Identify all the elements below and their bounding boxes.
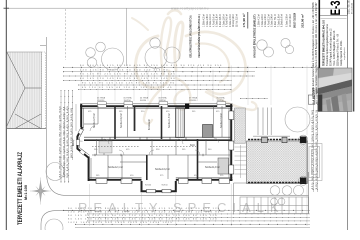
title block strip bbox=[312, 0, 353, 95]
svg-text:Közl.: Közl. bbox=[190, 145, 195, 147]
right dimension chains bbox=[314, 104, 318, 192]
svg-text:90 350 120 415 90 520 415 90 3: 90 350 120 415 90 520 415 90 350 120 415… bbox=[68, 208, 221, 210]
svg-text:NYUGATI ÉPÜLETRÉSZ (EMELET): NYUGATI ÉPÜLETRÉSZ (EMELET) bbox=[252, 14, 257, 57]
svg-text:8. Fürdő 4,60 m²: 8. Fürdő 4,60 m² bbox=[226, 14, 229, 27]
right dim micro text bbox=[312, 108, 318, 190]
svg-text:2021. 05. 28.: 2021. 05. 28. bbox=[348, 0, 351, 14]
svg-text:90/150: 90/150 bbox=[140, 100, 147, 102]
svg-text:Szoba 14,2 m²: Szoba 14,2 m² bbox=[120, 113, 123, 128]
svg-text:Szoba 12,1 m²: Szoba 12,1 m² bbox=[108, 166, 123, 169]
svg-text:10. Erkély 6,20 m²: 10. Erkély 6,20 m² bbox=[232, 14, 235, 27]
svg-text:5. Szoba 12,40 m²: 5. Szoba 12,40 m² bbox=[271, 14, 274, 27]
watermark logo ornate monogram bbox=[132, 10, 257, 123]
heavy divider bbox=[318, 0, 320, 68]
plot line center vertical bbox=[126, 8, 128, 66]
plot boundary vertical line bbox=[46, 37, 48, 172]
svg-text:Hrsz.: 1234/5 Megbízó: Minta K: Hrsz.: 1234/5 Megbízó: Minta Kft. bbox=[333, 30, 336, 66]
misc small marks top-left corner tick bbox=[4, 7, 10, 9]
eave strip bottom post bbox=[240, 132, 246, 139]
svg-text:90 145 90 145 120 145 90 145 9: 90 145 90 145 120 145 90 145 90 145 90 bbox=[82, 83, 175, 85]
patio right boundary bbox=[308, 172, 310, 214]
svg-text:120 415 90 520 415 90 350 120: 120 415 90 520 415 90 350 120 415 90 bbox=[80, 69, 169, 71]
bathroom dark block bbox=[203, 125, 213, 138]
svg-text:E-3: E-3 bbox=[328, 0, 343, 15]
top dimension chains bbox=[63, 65, 319, 99]
area table B rows bbox=[258, 14, 284, 27]
svg-text:1. Előtér 4,25 m²: 1. Előtér 4,25 m² bbox=[203, 14, 206, 27]
svg-text:1025 1430 1025 655 1430 1025 6: 1025 1430 1025 655 1430 1025 655 1430 10… bbox=[68, 222, 173, 224]
svg-text:KELETI ÉPÜLETRÉSZ (POLGÁRDI UT: KELETI ÉPÜLETRÉSZ (POLGÁRDI UTCA 12.) bbox=[196, 14, 201, 57]
bottom wall right part bbox=[176, 179, 233, 181]
svg-text:3. Szoba 14,21 m²: 3. Szoba 14,21 m² bbox=[209, 14, 212, 27]
page border right outer bbox=[353, 0, 355, 112]
svg-text:2. Szoba 13,25 m²: 2. Szoba 13,25 m² bbox=[261, 14, 264, 27]
wall opening ticks bbox=[95, 138, 203, 157]
svg-text:10. Fürdő 4,82 m²: 10. Fürdő 4,82 m² bbox=[289, 14, 292, 27]
left wall upper bbox=[80, 104, 82, 128]
svg-text:9. Szoba 12,20 m²: 9. Szoba 12,20 m² bbox=[286, 14, 289, 27]
terrace corner post SE bbox=[300, 178, 307, 185]
svg-text:Közlekedő: Közlekedő bbox=[149, 119, 151, 130]
svg-text:Erkély: Erkély bbox=[72, 139, 75, 146]
svg-text:4. Fürdő 5,40 m²: 4. Fürdő 5,40 m² bbox=[212, 14, 215, 27]
svg-text:90 145 90 210 145 90 145 120 1: 90 145 90 210 145 90 145 120 145 90 145 … bbox=[68, 215, 218, 217]
roof ridge lines bbox=[7, 52, 25, 126]
north star compass bbox=[32, 180, 50, 203]
patio furniture circles bbox=[270, 186, 303, 205]
svg-text:415 90 350 120 415 90 350 120: 415 90 350 120 415 90 350 120 415 bbox=[60, 104, 62, 178]
windows right wall bbox=[229, 111, 234, 174]
terrace bottom edge bbox=[248, 182, 307, 184]
room labels bbox=[72, 113, 270, 171]
steps between building and terrace bbox=[235, 145, 248, 178]
svg-text:9. Szoba 12,15 m²: 9. Szoba 12,15 m² bbox=[229, 14, 232, 27]
page border right inner bbox=[346, 0, 348, 230]
boundary rounded corner upper bbox=[47, 172, 309, 195]
bottom wall left part bbox=[89, 179, 142, 181]
svg-text:Szoba 12,5 m²: Szoba 12,5 m² bbox=[93, 113, 96, 128]
interior micro dimension text bbox=[88, 111, 224, 177]
svg-text:Realty Special Kft. 2021.: Realty Special Kft. 2021. bbox=[340, 40, 343, 66]
windows top bbox=[98, 102, 226, 107]
svg-text:Társasház építési engedélyezés: Társasház építési engedélyezési terve bbox=[326, 23, 329, 66]
svg-text:6. Közl. 7,81 m²: 6. Közl. 7,81 m² bbox=[274, 14, 277, 27]
svg-text:90 145 90 210 145 90 145 120 1: 90 145 90 210 145 90 145 120 145 bbox=[67, 104, 69, 178]
svg-text:Szoba 11,8 m²: Szoba 11,8 m² bbox=[168, 113, 171, 128]
dashed plot line top bbox=[65, 9, 67, 60]
svg-text:45 120 45 145 45 120 45 145 45: 45 120 45 145 45 120 45 145 45 120 45 bbox=[82, 87, 173, 89]
svg-text:7. Szoba 13,42 m²: 7. Szoba 13,42 m² bbox=[222, 14, 225, 27]
svg-text:4. Fürdő 5,12 m²: 4. Fürdő 5,12 m² bbox=[267, 14, 270, 27]
tiled room block bbox=[218, 158, 229, 174]
bay window left bbox=[77, 127, 88, 158]
chimney bbox=[185, 103, 189, 108]
svg-text:www.realtyspecial.hu: www.realtyspecial.hu bbox=[171, 7, 209, 11]
left dimension chains bbox=[61, 90, 76, 183]
terrace corner post NE bbox=[300, 137, 307, 144]
svg-text:60 145 120 145 90 145 60 145 1: 60 145 120 145 90 145 60 145 120 145 60 bbox=[80, 78, 176, 80]
door swing arcs bbox=[90, 126, 219, 155]
railing lines bbox=[253, 108, 290, 137]
svg-text:90 350 120 415 90 520 415 90 3: 90 350 120 415 90 520 415 90 350 120 415… bbox=[80, 65, 223, 67]
top extension lines bbox=[81, 66, 318, 136]
svg-text:Szoba 13,4 m²: Szoba 13,4 m² bbox=[220, 113, 223, 128]
svg-text:7. Szoba 11,95 m²: 7. Szoba 11,95 m² bbox=[277, 14, 280, 27]
svg-text:1. Előtér 4,12 m²: 1. Előtér 4,12 m² bbox=[258, 14, 261, 27]
trees bottom-left bbox=[46, 163, 64, 181]
pergola nested rects bbox=[307, 144, 323, 181]
svg-text:60 145 120 145 90 145 60 145 1: 60 145 120 145 90 145 60 145 120 145 60 … bbox=[68, 219, 218, 221]
patio court boundary bbox=[234, 183, 249, 214]
roof dashed eave band bbox=[41, 52, 45, 129]
svg-text:Szoba 11,9 m²: Szoba 11,9 m² bbox=[205, 166, 220, 169]
building envelope bbox=[76, 102, 234, 193]
photo in title block bbox=[318, 68, 352, 112]
svg-text:323,96 m²: 323,96 m² bbox=[301, 14, 305, 28]
svg-text:3. Szoba 12,84 m²: 3. Szoba 12,84 m² bbox=[264, 14, 267, 27]
trees near table bbox=[257, 38, 294, 57]
svg-text:M 1:100 A3: M 1:100 A3 bbox=[350, 2, 353, 14]
svg-text:TERVEZETT EMELETI ALAPRAJZ M=1: TERVEZETT EMELETI ALAPRAJZ M=1:100 bbox=[323, 19, 326, 66]
top wall bbox=[80, 105, 233, 107]
page border top bbox=[6, 7, 347, 9]
windows bottom bbox=[96, 178, 230, 183]
svg-text:11. Közl. 5,10 m²: 11. Közl. 5,10 m² bbox=[236, 14, 239, 27]
svg-text:8154 Polgárdi, Kossuth Lajos u: 8154 Polgárdi, Kossuth Lajos utca 12. bbox=[330, 28, 333, 66]
svg-text:M=1:100: M=1:100 bbox=[23, 184, 28, 200]
svg-text:120 415 90 520 415 90 350 120: 120 415 90 520 415 90 350 120 415 90 520… bbox=[68, 212, 221, 214]
svg-text:Szoba 13,2 m²: Szoba 13,2 m² bbox=[155, 168, 170, 171]
neighbour roof hatched block bbox=[7, 52, 46, 129]
svg-text:171,98 m²: 171,98 m² bbox=[242, 14, 246, 28]
svg-text:1111 Budapest, Fő utca 1. Tel.: 1111 Budapest, Fő utca 1. Tel.: +36 bbox=[337, 33, 340, 66]
svg-text:5. Szoba 11,80 m²: 5. Szoba 11,80 m² bbox=[216, 14, 219, 27]
svg-text:2. Szoba 12,50 m²: 2. Szoba 12,50 m² bbox=[206, 14, 209, 27]
svg-text:engedélyezési: engedélyezési bbox=[344, 47, 346, 60]
svg-text:6. Közl. 8,95 m²: 6. Közl. 8,95 m² bbox=[219, 14, 222, 27]
terrace railing posts bbox=[262, 137, 268, 143]
eave hatched strip right of building bbox=[234, 108, 245, 143]
boundary rounded corner lower (road) bbox=[41, 211, 95, 230]
right wall bbox=[230, 104, 232, 181]
bottom bay middle bbox=[142, 181, 176, 191]
bay windows bbox=[76, 128, 85, 155]
left dim micro text bbox=[60, 104, 73, 178]
svg-text:90/150: 90/150 bbox=[145, 185, 152, 187]
bottom dimension chains bbox=[63, 184, 310, 228]
terrace hatched area bbox=[247, 141, 308, 184]
table B extra bbox=[286, 13, 305, 28]
terrace top edge bbox=[248, 139, 307, 141]
tree right of terrace bbox=[285, 107, 310, 132]
trees top-left cluster bbox=[86, 38, 180, 70]
svg-text:120 415 90 520 415 90 350 120: 120 415 90 520 415 90 350 120 41 bbox=[63, 104, 65, 178]
patio grid bbox=[240, 197, 309, 214]
section marker box bbox=[308, 95, 315, 104]
svg-text:8. Erkély 6,40 m²: 8. Erkély 6,40 m² bbox=[281, 14, 284, 27]
svg-text:EMELET ÖSSZESEN: EMELET ÖSSZESEN bbox=[292, 13, 297, 28]
table A sum bbox=[247, 12, 249, 29]
left wall lower bbox=[88, 157, 90, 182]
area table A rows bbox=[203, 14, 239, 27]
svg-text:120/150: 120/150 bbox=[189, 100, 197, 102]
stair shaft bbox=[176, 108, 185, 138]
svg-text:60 145 120 145 90 145 60: 60 145 120 145 90 145 60 bbox=[71, 106, 73, 158]
page border left bbox=[5, 0, 7, 230]
interior walls bbox=[84, 106, 232, 180]
svg-text:90/150: 90/150 bbox=[162, 185, 169, 187]
interior minor partitions bbox=[84, 106, 222, 179]
window labels above top wall bbox=[97, 97, 225, 102]
svg-text:90 145 90 210 145 90 145 120 1: 90 145 90 210 145 90 145 120 145 90 145 bbox=[80, 74, 176, 76]
